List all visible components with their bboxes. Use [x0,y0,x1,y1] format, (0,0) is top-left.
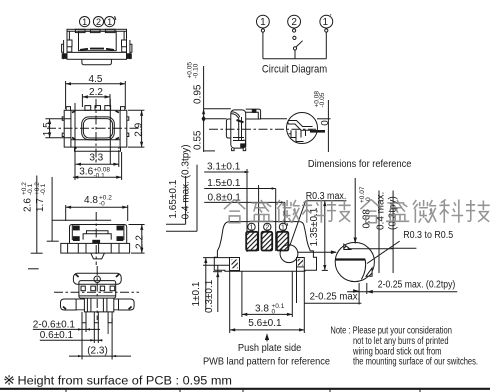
plan view: body [64,106,127,148]
side view left: dim 2.2 [129,225,146,254]
front view: push plate bottom tab [82,59,112,64]
dim 3.8 [242,267,297,317]
land pattern: small detail ring [280,245,298,263]
side view middle: dim 0.55 [193,130,216,151]
bottom view: mid housing [79,281,116,299]
plan view: centerline horizontal [47,127,140,129]
front view: clip black fills [62,53,67,59]
svg-text:-0.1: -0.1 [40,183,47,195]
side view left: base skirt [61,243,130,253]
svg-text:1±0.1: 1±0.1 [191,281,202,306]
land pattern: pad labels [248,223,288,232]
svg-text:1.65±0.1: 1.65±0.1 [168,179,179,218]
bottom view: left wing [61,299,77,310]
bottom view: centerline cross [96,266,98,320]
svg-text:3.8: 3.8 [255,304,269,315]
land pattern: dim 0.8 [204,185,285,251]
svg-text:-0.10: -0.10 [193,63,200,78]
svg-text:3.1±0.1: 3.1±0.1 [207,161,241,172]
side view left: dim 4.8 +0.2 -0 [66,195,128,222]
side view left: dim 1.7 +0.2 -0.1 [34,177,59,241]
svg-text:1: 1 [82,17,87,27]
svg-text:5.6±0.1: 5.6±0.1 [248,318,282,329]
svg-text:0.4 max. (0.3tpy): 0.4 max. (0.3tpy) [181,144,192,219]
detail circle A [287,113,318,144]
front view: inner shelf line [67,51,127,53]
side view left: centre nub [91,253,105,259]
svg-text:1.5: 1.5 [42,122,53,136]
side view middle: body profile [226,109,260,151]
land pattern: dim 1 rotated [191,258,230,310]
svg-text:2.2: 2.2 [134,235,145,249]
bottom view: dim (2.3) [69,318,131,360]
circuit diagram: contact dots [261,29,264,32]
pin label 1 (front view) [80,17,90,27]
svg-text:PWB land pattern for reference: PWB land pattern for reference [203,356,330,368]
dim (0.3tpy) rotated [388,196,417,248]
plan view: dim 2.2 [82,87,110,107]
pin label 2 (front view) [93,17,103,27]
land pattern: pad 1' [277,232,289,251]
plan view: side lugs [62,117,129,137]
svg-text:1: 1 [281,225,285,232]
bottom view: right wing [119,299,135,310]
plan view: witness lines long [74,103,76,180]
plan view: dim 4.5 [66,74,126,109]
circuit diagram: pin 2 circle [288,15,301,28]
circuit diagram: wires [263,28,326,59]
pin label 1' (front view) [105,16,116,27]
front view: left clip wing [62,40,72,59]
svg-text:2.2: 2.2 [89,87,103,98]
svg-text:Dimensions for reference: Dimensions for reference [308,158,412,170]
side view left: dim 2.6 +0.2 -0.1 [21,176,43,254]
plan view: dim 1.5 [42,119,71,138]
svg-text:3.3: 3.3 [89,153,103,164]
front view: contact strip (dark) [80,49,114,50]
land pattern: leader to detail circle [298,250,337,254]
plan view: dim 3.3 [76,150,119,167]
watermark text row [224,199,490,222]
land pattern: pad 2 [262,232,273,251]
svg-text:Push plate side: Push plate side [238,342,302,354]
side view left: body cover [70,225,127,244]
dim 0.4 max rotated [375,191,393,274]
svg-text:1: 1 [250,225,254,232]
side view left: centerline [95,212,97,265]
dim 0.08 rotated [359,186,379,273]
bottom view: dim 2-0.6 [33,320,100,332]
land pattern: pad left square [230,258,240,271]
land pattern: dim 1.5 [204,178,276,251]
detail circle B [335,242,374,281]
push plate side arrow [265,334,269,342]
svg-text:0.95: 0.95 [193,84,204,104]
plan view: bottom skirt [75,147,121,151]
land pattern: dim 0.4 max (0.3tpy) rotated [166,144,197,231]
side view middle: pcb surface line [204,118,227,120]
svg-text:2: 2 [291,17,297,28]
svg-text:2.6: 2.6 [22,198,33,212]
land pattern: dim 3.1 [204,161,248,252]
svg-text:Height from surface of PCB : 0: Height from surface of PCB : 0.95 mm [18,376,233,388]
svg-text:1: 1 [107,17,112,27]
note text [330,326,478,368]
plan view: corner hooks [66,107,125,111]
dim 2-0.25 max [304,283,361,305]
land pattern: dim 1.65 rotated [166,176,186,224]
svg-text:0: 0 [320,120,331,126]
svg-text:wiring board stick out from: wiring board stick out from [352,346,441,357]
bottom view: wing connectors [76,299,118,310]
svg-text:2-0.25 max. (0.2tpy): 2-0.25 max. (0.2tpy) [378,279,456,290]
svg-text:0.55: 0.55 [193,130,204,150]
svg-text:-0: -0 [99,201,105,208]
land pattern: dim 0.3 rotated [204,265,222,313]
land pattern: pad 1 [246,232,258,251]
land pattern: dim 1.35 rotated [309,201,328,271]
svg-text:(2.3): (2.3) [87,346,108,357]
bottom view: dim 0.6 [40,323,103,343]
detail A: dim 0 +0.08 -0.05 [310,91,331,152]
circuit diagram: switch blade [296,41,303,47]
svg-text:Note : Please put your conside: Note : Please put your consideration [330,326,452,337]
svg-text:2.9: 2.9 [133,122,144,136]
svg-text:1.7: 1.7 [35,198,46,212]
plan view: centre button [82,117,115,140]
label R0.3 max [290,191,347,247]
svg-text:R0.3 to R0.5: R0.3 to R0.5 [403,230,453,241]
side view left: pcb line [28,268,39,270]
side view left: button top line [52,219,111,221]
table border [0,389,490,392]
svg-text:4.8: 4.8 [84,195,98,206]
plan view: corner marks (dark) [72,111,119,140]
dim 2-0.25 max (0.2tpy) [347,279,457,294]
svg-text:0.3±0.1: 0.3±0.1 [204,279,215,313]
svg-text:-0.1: -0.1 [94,172,106,179]
front view: switch body outline [67,29,127,59]
circuit diagram: pin 1' circle [320,13,333,28]
plan view: centerline vertical [95,99,97,163]
front view: right clip wing [122,40,132,59]
svg-text:Circuit Diagram: Circuit Diagram [262,63,327,75]
bottom view: centre block [84,298,113,312]
svg-text:-0.05: -0.05 [319,92,326,107]
footnote: kome mark [4,375,13,385]
plan view: dim 2.9 [128,110,144,147]
detail B: chord and corner [335,244,393,279]
svg-text:0.4 max.: 0.4 max. [375,192,386,230]
svg-text:2: 2 [265,225,269,232]
bottom view: terminal pins [82,312,112,334]
side view middle: dim 0.95 +0.05 -0.10 [187,62,231,152]
svg-text:1: 1 [260,17,266,28]
side view middle: centerline [209,128,316,130]
dim 5.6 [230,267,305,333]
land pattern: contour outline [214,222,316,272]
label R0.3 to R0.5 [367,230,454,263]
detail circle A: magnified terminal [288,121,313,142]
svg-text:1.5±0.1: 1.5±0.1 [207,178,241,189]
svg-text:the mounting surface of our sw: the mounting surface of our switches. [353,357,478,368]
svg-text:3.6: 3.6 [79,167,93,178]
svg-text:1: 1 [323,17,329,28]
plan view: dim 3.6 +0.08 -0.1 [73,152,122,180]
bottom view: top cover [73,273,121,284]
land pattern: pad right square [297,258,305,267]
svg-text:2-0.25 max.: 2-0.25 max. [310,292,361,303]
svg-text:2: 2 [96,17,101,27]
side view left: push plate [83,231,111,243]
side view middle: seating plane marker [202,115,206,122]
svg-text:0.6±0.1: 0.6±0.1 [40,330,74,341]
circuit diagram: pin 1 circle [257,15,270,28]
land pattern: arrow to detail top [354,178,357,244]
